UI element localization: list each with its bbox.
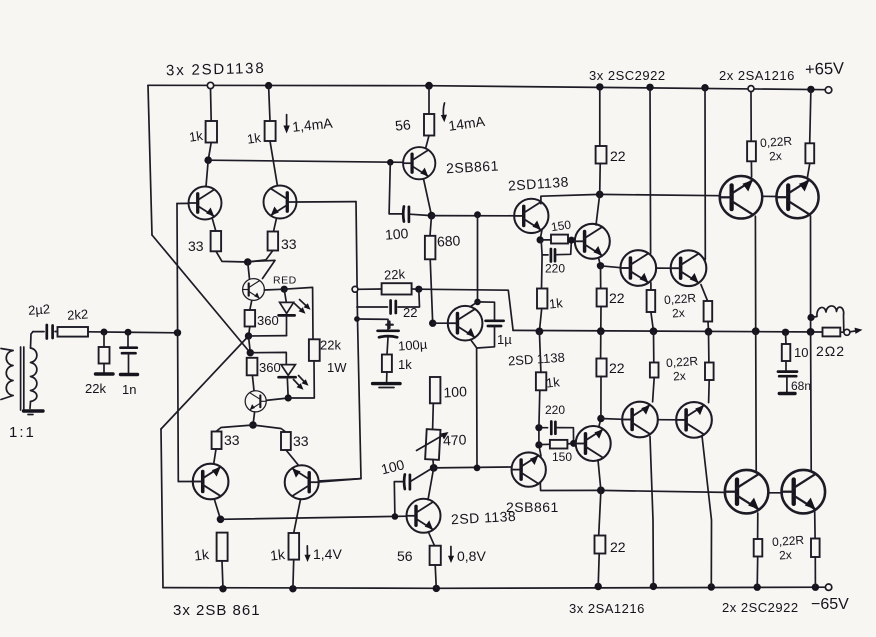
junction dot M2	[597, 327, 605, 335]
wire Q3 collector to dot	[215, 500, 221, 520]
svg-text:1n: 1n	[122, 382, 136, 397]
svg-text:2x: 2x	[779, 548, 793, 563]
wire Q9 collector up	[596, 194, 600, 225]
junction input dot2	[125, 329, 132, 336]
svg-text:100µ: 100µ	[398, 337, 429, 354]
junction rail ring A	[207, 82, 213, 88]
resistor R 33 upper left	[211, 231, 248, 262]
label 0,22R 2x top mid	[664, 291, 697, 321]
wire rail column F	[704, 88, 706, 260]
capacitor 22 feedback	[357, 289, 420, 313]
wire Q5 collector to junction	[424, 179, 432, 216]
transistor Q9 predriver upper 2SC2922	[575, 224, 610, 259]
junction dot M3	[650, 327, 658, 335]
resistor R 2R2 output	[823, 328, 841, 337]
junction dot N3 predriver base	[568, 237, 575, 244]
resistor R 150 lower	[539, 440, 574, 449]
svg-text:150: 150	[550, 217, 572, 234]
svg-text:1:1: 1:1	[9, 424, 36, 441]
junction dot N2	[537, 236, 544, 243]
junction dot RED node	[281, 286, 288, 293]
wire Q4 collector	[294, 499, 301, 533]
junction dot VAS out lower	[430, 464, 438, 472]
junction dot 100u tap	[354, 316, 360, 322]
node output mid rail	[513, 330, 822, 332]
wire Q15 collector to bottom rail	[702, 436, 712, 587]
node ring 22k feedback left	[352, 286, 358, 292]
junction bottom rail dot a	[219, 585, 226, 592]
svg-text:0,22R: 0,22R	[664, 291, 697, 307]
junction rail dot H	[807, 86, 814, 93]
svg-text:3x 2SD1138: 3x 2SD1138	[166, 60, 266, 80]
resistor R 33 lower left	[212, 425, 253, 463]
transistor Q13 output 2SC2922 b	[671, 250, 707, 286]
wire base between Q14 Q15	[658, 419, 677, 421]
terminal output ring	[844, 329, 850, 335]
wire Q7 emitter down	[428, 532, 434, 546]
svg-text:33: 33	[293, 433, 309, 449]
junction dot M6 zobel tap	[782, 329, 789, 336]
resistor R 22 col3	[596, 331, 606, 418]
junction bottom rail dot e	[650, 583, 657, 590]
wire T4 to dot3	[266, 398, 288, 400]
inductor L output	[811, 306, 844, 332]
resistor R 22k feedback	[358, 283, 419, 294]
junction dot 33 node lower	[249, 421, 257, 429]
transistor Q17 output right top 2SA1216 b	[776, 176, 818, 218]
resistor R 100 mid	[430, 377, 441, 430]
svg-text:360: 360	[259, 360, 281, 375]
wire T9 emitter down	[471, 340, 478, 468]
wire rail column E	[649, 87, 652, 253]
transistor Q6 bias spreader	[448, 306, 483, 341]
capacitor 2u2 input	[33, 325, 58, 339]
capacitor 100 comp lower	[394, 470, 430, 517]
resistor R 360 upper	[245, 310, 256, 327]
svg-text:22k: 22k	[384, 266, 406, 282]
svg-text:56: 56	[394, 116, 411, 134]
wire lower driver base line	[434, 466, 512, 469]
svg-text:1k: 1k	[246, 130, 262, 147]
wire Q8 emitter	[540, 230, 542, 240]
wire 470 to junction	[432, 460, 435, 468]
terminal -65V ring	[825, 584, 831, 590]
wire T4 down to 33 node lower	[253, 412, 255, 425]
svg-text:220: 220	[545, 403, 565, 417]
svg-text:470: 470	[443, 431, 467, 448]
svg-text:22: 22	[609, 360, 625, 376]
capacitor 220 upper	[541, 240, 571, 261]
resistor 22k input	[99, 332, 110, 373]
resistor R 0,22R bottom b	[705, 332, 714, 403]
transformer T input 1:1	[1, 332, 37, 410]
junction bottom rail dot d	[595, 583, 602, 590]
capacitor 68n zobel	[778, 372, 797, 394]
junction dot bias1	[245, 332, 252, 339]
wire base line between top pair	[762, 195, 776, 197]
junction dot T9 collector	[474, 299, 481, 306]
wire mirror node to VAS base	[208, 160, 403, 162]
junction dot bias3	[285, 394, 292, 401]
transistor T4 bias chain lower	[245, 391, 266, 412]
resistor R 680	[425, 216, 436, 324]
junction dot 33 node upper	[244, 258, 252, 266]
junction rail dot B	[265, 82, 272, 89]
junction dot N4	[597, 262, 604, 269]
junction dot mirror node	[204, 156, 212, 164]
wire left bottom drop	[161, 429, 163, 588]
svg-text:2SB861: 2SB861	[446, 158, 500, 177]
wire base line between bottom pair	[769, 492, 782, 494]
junction rail dot E	[646, 84, 653, 91]
svg-text:2k2: 2k2	[67, 306, 89, 322]
junction rail ring G	[748, 86, 754, 92]
wire Q18 collector to mid rail	[755, 331, 758, 470]
wire Q1 base	[177, 202, 189, 204]
wire base between Q12 Q13	[656, 267, 671, 269]
junction dot M7	[807, 328, 815, 336]
svg-text:56: 56	[397, 548, 413, 564]
transistor Q5 VAS upper 2SB861	[403, 147, 435, 179]
svg-text:220: 220	[545, 262, 565, 276]
resistor R 0,22R top a	[647, 283, 656, 332]
wire T9 collector up	[471, 215, 478, 307]
transistor Q19 output right bottom 2SC2922 b	[782, 470, 826, 514]
wire T3 to RED node	[264, 288, 284, 291]
wire Q2 base to feedback column	[296, 201, 356, 203]
svg-text:3x 2SC2922: 3x 2SC2922	[589, 68, 666, 83]
resistor R 0,22R bottom a	[650, 331, 659, 402]
resistor R 150 upper	[540, 235, 571, 244]
svg-text:22: 22	[403, 305, 417, 320]
svg-text:2x: 2x	[672, 306, 686, 321]
svg-text:1k: 1k	[398, 357, 412, 372]
ground feedback	[373, 384, 400, 388]
junction dot M1	[536, 328, 544, 336]
transistor Q10 driver lower 2SB861	[512, 452, 546, 486]
resistor R 0,22R top b	[701, 285, 712, 332]
wire input column	[177, 204, 178, 482]
svg-text:68n: 68n	[791, 379, 811, 393]
capacitor 1u bias	[477, 302, 503, 348]
wire Q7 collector up	[428, 468, 434, 500]
transistor Q1 diff upper left	[189, 187, 222, 220]
transistor Q14 output 2SA1216 a	[622, 402, 658, 438]
label 0,22R 2x bottom mid	[666, 354, 699, 384]
svg-text:3x 2SA1216: 3x 2SA1216	[569, 601, 645, 616]
wire Q10 emitter	[539, 445, 541, 456]
wire lower VAS base line	[221, 516, 408, 519]
junction dot inductor tap	[807, 314, 814, 321]
junction bottom rail dot c	[433, 585, 440, 592]
capacitor 1n	[121, 332, 137, 372]
svg-text:33: 33	[188, 238, 204, 254]
junction bottom rail dot g	[754, 584, 761, 591]
label arrow 1,4mA	[283, 115, 289, 134]
ground 22k input	[96, 372, 114, 375]
transistor Q2 diff upper right	[264, 186, 297, 219]
wire output arrow	[850, 328, 863, 334]
resistor R 56 upper	[424, 86, 434, 148]
svg-text:2x: 2x	[673, 369, 687, 384]
transistor T3 bias chain upper	[243, 279, 265, 301]
ground transformer	[24, 411, 44, 415]
wire upper driver base line	[432, 215, 515, 217]
junction dot M4	[705, 328, 713, 336]
svg-text:2SB861: 2SB861	[506, 499, 559, 515]
resistor R 10 zobel	[782, 332, 791, 371]
junction dot VAS out upper	[428, 212, 436, 220]
resistor R 22 col2	[597, 266, 607, 331]
junction dot bias top	[474, 211, 481, 218]
wire Q1 collector	[206, 160, 208, 186]
label 0,22R 2x top right	[760, 134, 793, 164]
junction rail dot D (22 column)	[596, 83, 603, 90]
svg-text:33: 33	[281, 236, 297, 252]
diode LED2 red	[279, 365, 309, 398]
wire Q16 collector to mid rail	[754, 216, 756, 331]
svg-text:0,8V: 0,8V	[457, 548, 486, 564]
junction dot Q3 collector	[217, 516, 225, 524]
transistor Q4 diff lower right	[285, 465, 319, 499]
transistor Q7 VAS lower 2SD1138	[407, 499, 441, 533]
wire Q14 collector to bottom rail	[650, 437, 653, 587]
svg-text:−65V: −65V	[811, 596, 849, 613]
wire Q17 collector to mid rail	[810, 216, 812, 332]
transistor Q18 output right bottom 2SC2922 a	[725, 470, 769, 514]
svg-text:1W: 1W	[327, 360, 347, 375]
svg-text:RED: RED	[273, 275, 297, 287]
junction dot bias2	[247, 349, 254, 356]
node -65V bottom supply rail	[163, 587, 828, 588]
label arrow 1,4V	[305, 546, 311, 562]
svg-text:150: 150	[552, 450, 572, 464]
transistor Q11 predriver lower 2SA1216	[576, 426, 611, 461]
capacitor 100 comp upper	[389, 162, 431, 222]
transistor Q8 driver upper 2SD1138	[514, 199, 548, 233]
capacitor 100u electrolytic	[357, 319, 399, 355]
resistor R 0,22R rail a	[747, 92, 756, 177]
svg-text:3x 2SB 861: 3x 2SB 861	[173, 602, 261, 619]
junction dot 22k right	[415, 286, 422, 293]
terminal +65V ring	[825, 87, 832, 94]
svg-text:22k: 22k	[320, 338, 341, 353]
wire Q4 base to feedback column	[319, 479, 361, 482]
wire T9 base	[433, 322, 449, 324]
wire Q10 collector to bottom base line	[540, 483, 601, 491]
wire feedback to output rail	[419, 289, 513, 330]
wire diagonal from upper-left to bias chain node	[152, 235, 250, 353]
junction dot N9	[597, 415, 604, 422]
junction dot VAS base cap tap	[387, 159, 394, 166]
svg-text:0,22R: 0,22R	[760, 134, 793, 150]
svg-text:22: 22	[610, 539, 626, 555]
resistor R 360 lower	[247, 358, 258, 391]
resistor R 1k driver lower	[536, 331, 546, 427]
svg-text:360: 360	[257, 313, 279, 328]
wire 33 node stub right	[248, 260, 275, 278]
junction dot lower VAS base tap	[392, 513, 399, 520]
wire dot2 to LED2 top	[250, 352, 286, 364]
diode LED1 red	[279, 289, 311, 335]
transistor Q3 diff lower left	[193, 464, 229, 500]
svg-text:0,22R: 0,22R	[772, 533, 805, 549]
label 0,22R 2x bottom right	[772, 533, 805, 563]
svg-text:2x: 2x	[769, 149, 783, 164]
svg-text:22: 22	[609, 290, 625, 306]
svg-text:100: 100	[384, 225, 409, 243]
resistor R 1k driver upper	[537, 255, 547, 332]
svg-text:2Ω2: 2Ω2	[816, 343, 845, 359]
resistor R 1k current source right	[265, 86, 278, 187]
junction dot T9 base	[429, 320, 436, 327]
junction dot bias bottom	[474, 465, 481, 472]
wire Q19 collector to mid rail	[810, 332, 813, 471]
svg-text:2x 2SC2922: 2x 2SC2922	[722, 600, 799, 615]
resistor R 0,22R rail b	[805, 89, 814, 176]
wire N9 to Q14 base	[601, 418, 623, 421]
wire left rail drop	[148, 85, 152, 235]
svg-text:1k: 1k	[269, 546, 286, 564]
svg-text:1,4V: 1,4V	[313, 546, 342, 562]
junction dot N8	[535, 424, 542, 431]
wire Q2 emitter	[274, 218, 277, 231]
trimmer 470	[417, 429, 449, 460]
junction input dot1	[101, 329, 108, 336]
label arrow 14mA	[441, 103, 447, 122]
resistor R 1k feedback	[382, 355, 392, 382]
wire dot1 to LED1 bottom	[249, 335, 287, 337]
junction rail dot F	[701, 84, 708, 91]
svg-text:100: 100	[443, 383, 467, 400]
resistor R 22 col1	[596, 87, 607, 194]
transistor Q12 output 2SC2922 a	[620, 250, 656, 286]
svg-text:1k: 1k	[545, 374, 561, 390]
svg-text:680: 680	[437, 232, 461, 249]
junction dot M5	[752, 327, 760, 335]
resistor R 0,22R bot right b	[811, 512, 820, 587]
wire 360 upper to dot1	[249, 327, 250, 336]
wire T3 emitter down	[250, 300, 252, 310]
wire Q11 emitter up	[599, 419, 601, 428]
junction dot N6	[535, 441, 542, 448]
ground 1n	[121, 373, 138, 376]
wire dot1 to dot2	[249, 336, 251, 353]
wire Q9 emitter down	[599, 258, 601, 266]
resistor 2k2	[58, 327, 89, 337]
wire bottom output pair base line	[601, 490, 725, 492]
svg-text:2µ2: 2µ2	[28, 301, 51, 317]
wire 33 node to T3	[248, 262, 250, 279]
wire Q1 emitter	[213, 219, 216, 231]
resistor R 22k 1W	[284, 287, 319, 398]
svg-text:1µ: 1µ	[497, 332, 512, 347]
svg-text:1k: 1k	[193, 546, 210, 564]
node +65V top supply rail	[148, 85, 828, 89]
wire feedback column	[319, 202, 361, 481]
resistor R 0,22R bot right a	[754, 513, 763, 587]
resistor R 1k lower left	[217, 533, 228, 589]
junction dot N5	[597, 487, 605, 495]
svg-text:1k: 1k	[188, 128, 204, 145]
wire N4 to Q12 base	[601, 266, 621, 268]
junction input column dot	[174, 329, 181, 336]
junction bottom rail dot h	[812, 584, 819, 591]
junction bottom rail dot b	[289, 585, 296, 592]
svg-text:+65V: +65V	[805, 60, 845, 79]
resistor R 56 lower	[430, 546, 441, 589]
wire mid rail right segment	[840, 331, 844, 333]
wire Q3 base	[178, 481, 192, 483]
label arrow 0,8V	[448, 547, 454, 564]
resistor R 1k current source left	[206, 89, 217, 161]
svg-text:10: 10	[794, 345, 808, 360]
svg-text:0,22R: 0,22R	[666, 354, 699, 370]
resistor R 33 upper right	[248, 232, 278, 263]
junction bottom rail dot f	[708, 583, 715, 590]
svg-text:2x 2SA1216: 2x 2SA1216	[719, 68, 795, 83]
svg-text:22: 22	[610, 148, 626, 164]
transistor Q15 output 2SA1216 b	[676, 402, 712, 438]
junction dot N1	[596, 191, 604, 199]
resistor R 22 col4	[595, 490, 606, 586]
transistor Q16 output right top 2SA1216 a	[720, 176, 763, 219]
wire Q8 collector to output base line	[541, 194, 600, 203]
wire Q11 collector down	[598, 460, 601, 490]
svg-text:1k: 1k	[548, 295, 564, 311]
junction rail dot C (56 column)	[425, 82, 433, 90]
svg-text:33: 33	[224, 432, 240, 448]
wire diagonal from lower-left to bias chain node	[161, 336, 249, 429]
resistor R 33 lower right	[253, 425, 299, 465]
capacitor 220 lower	[539, 422, 574, 445]
svg-text:22k: 22k	[85, 381, 106, 396]
wire top output pair base line	[600, 194, 721, 195]
junction dot N7 predriver base	[570, 440, 577, 447]
label 22k 1W	[320, 338, 347, 376]
wire input node	[88, 332, 178, 333]
resistor R 1k lower right	[289, 533, 300, 589]
